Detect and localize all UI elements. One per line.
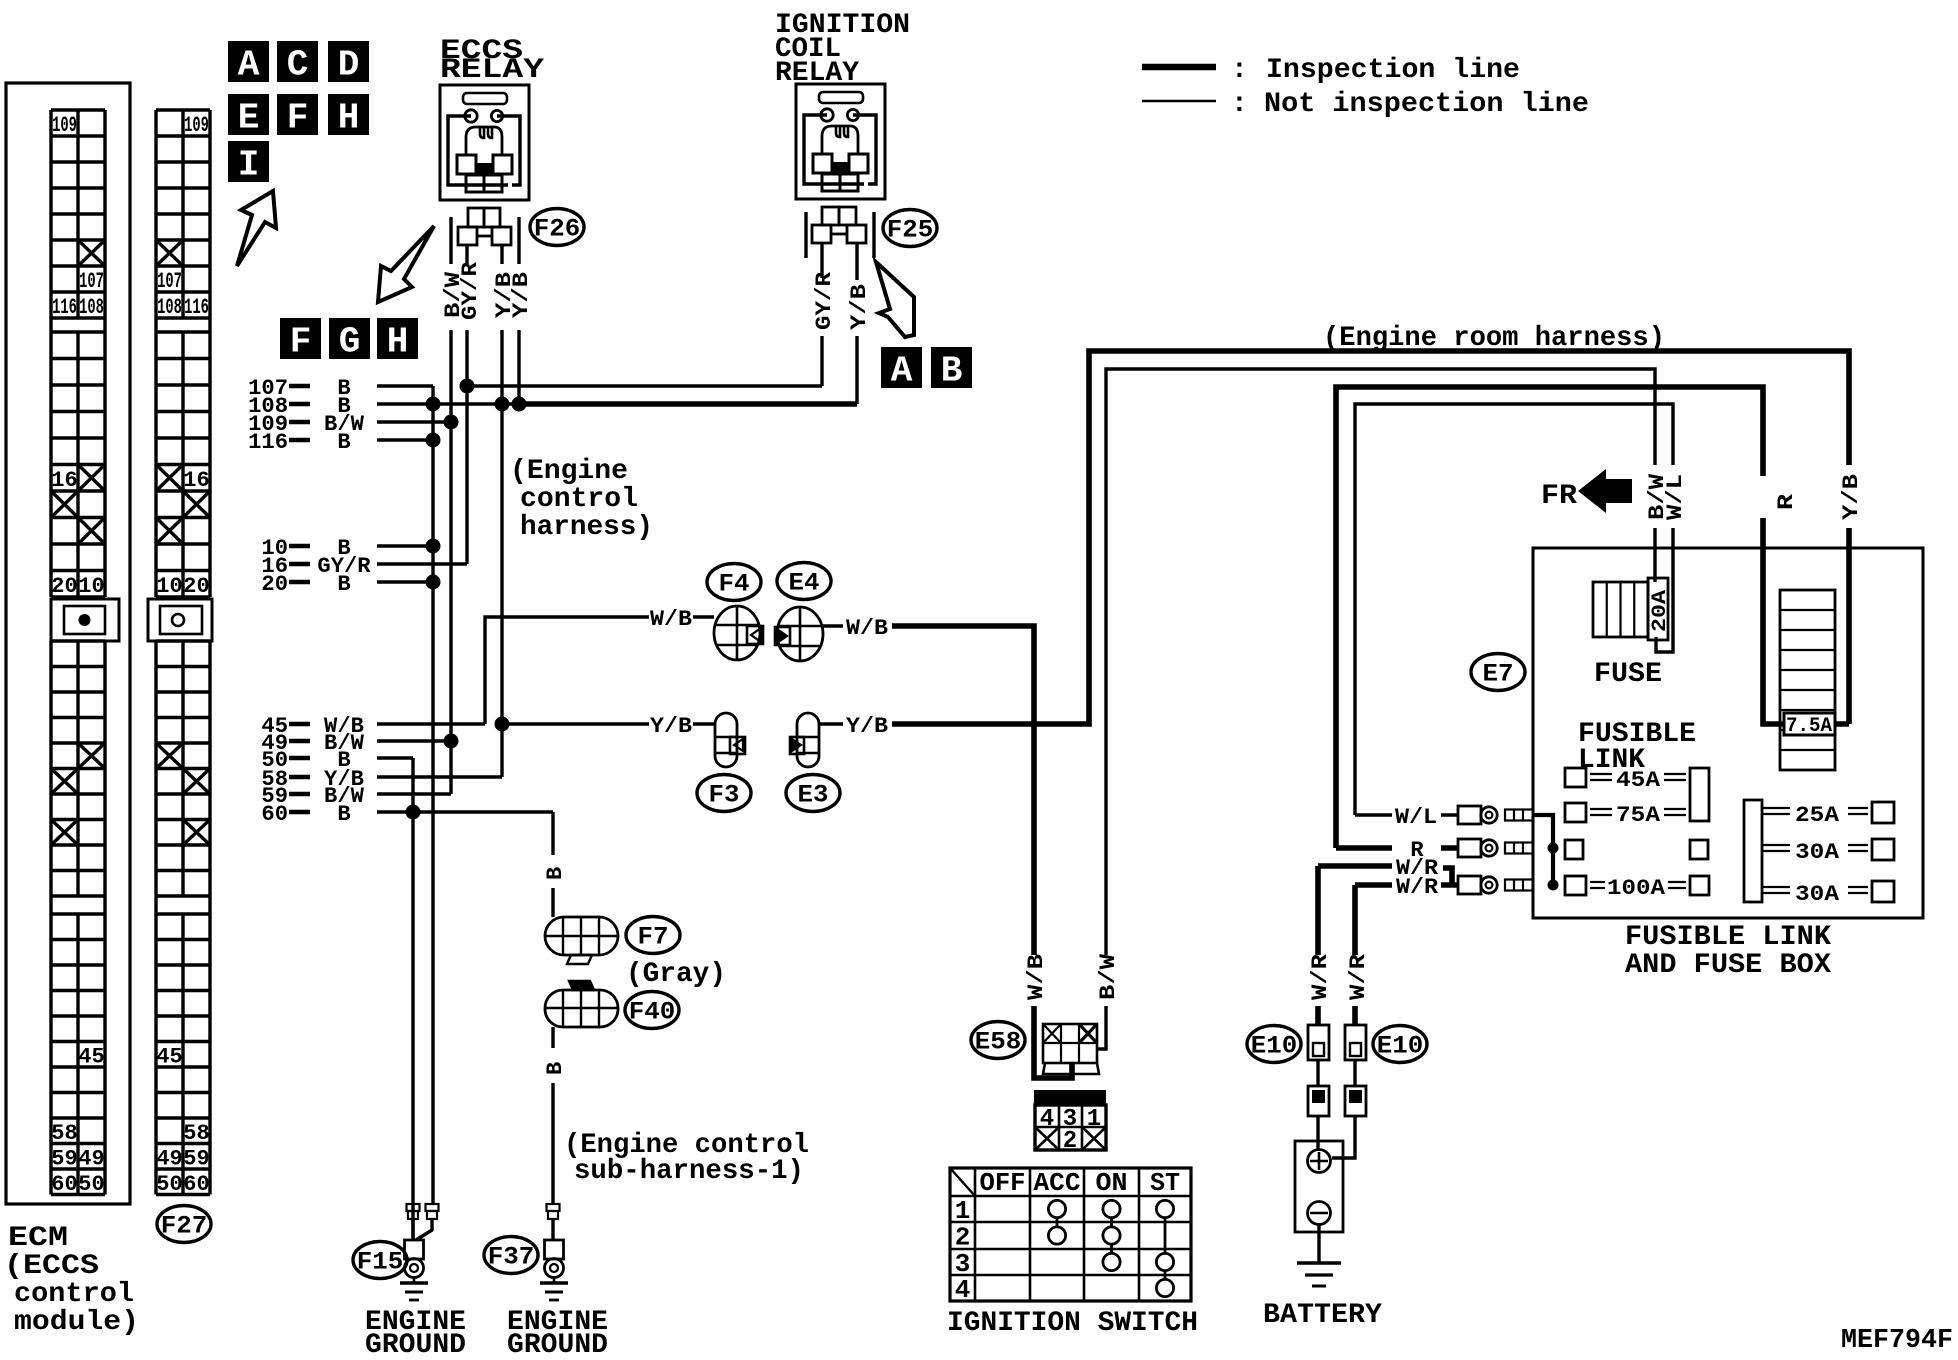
battery body: [1295, 1141, 1343, 1232]
svg-text:sub-harness-1): sub-harness-1): [574, 1156, 804, 1187]
svg-text:E10: E10: [1251, 1032, 1298, 1061]
svg-text:F3: F3: [709, 781, 740, 810]
svg-text:108: 108: [79, 295, 104, 320]
wire label Y/B at ECCS relay pin 3: [492, 272, 517, 318]
svg-text:20: 20: [261, 572, 288, 597]
svg-text:60: 60: [183, 1172, 209, 1197]
marker box I (top group): [228, 141, 269, 186]
svg-text:W/R: W/R: [1308, 953, 1333, 1000]
fusible link 25A row: [1761, 802, 1894, 828]
wire bus B (x413) from pin 50 down to engine ground F15: [406, 758, 421, 1240]
svg-text:F: F: [290, 322, 312, 363]
svg-text:ACC: ACC: [1034, 1168, 1081, 1198]
wire GY/R from ignition coil relay down to pin 107 row: [820, 268, 823, 386]
svg-text:G: G: [339, 322, 361, 363]
legend inspection line sample: [1142, 64, 1216, 71]
marker box F (middle group): [280, 318, 321, 363]
connector E3 body: [790, 713, 819, 767]
svg-text:E7: E7: [1483, 660, 1514, 689]
ECM right strip keying connector with open circle: [148, 599, 212, 641]
svg-text:control: control: [14, 1279, 134, 1310]
svg-text:I: I: [238, 145, 260, 186]
svg-text:45A: 45A: [1616, 768, 1661, 793]
connector F3 label: [697, 775, 751, 812]
wire Y/B second pin of ECCS relay down to row 108: [512, 330, 527, 412]
svg-text:E: E: [238, 98, 260, 139]
svg-text:30A: 30A: [1795, 840, 1840, 865]
svg-text:50: 50: [78, 1172, 104, 1197]
svg-text:7.5A: 7.5A: [1786, 715, 1832, 738]
svg-text:116: 116: [248, 430, 288, 455]
battery terminal connector left upper: [1308, 1006, 1329, 1060]
svg-text:30A: 30A: [1795, 882, 1840, 907]
engine ground F15 terminal: [400, 1240, 428, 1300]
(Engine control sub-harness-1) label: [564, 1130, 809, 1187]
wire R from label down to 7.5A fuse joint: [1763, 518, 1849, 724]
ignition switch connector face black header: [1034, 1090, 1106, 1105]
svg-text:109: 109: [52, 113, 77, 138]
ignition switch connector face pin grid 431/X2X: [1035, 1105, 1106, 1155]
fuse 7.5A label: [1784, 713, 1835, 738]
svg-text:Inspection line: Inspection line: [1266, 55, 1520, 86]
wire W/B from label down to E58 connector: [1034, 1006, 1072, 1078]
wire B/W bus from ECCS relay to pins 109/49/59: [444, 330, 459, 794]
wire label B/W above 20A fuse: [1645, 473, 1670, 520]
ENGINE GROUND caption right: [507, 1307, 608, 1360]
svg-text:F15: F15: [357, 1248, 404, 1277]
svg-text:49: 49: [156, 1146, 182, 1171]
svg-text:58: 58: [183, 1121, 209, 1146]
FUSIBLE LINK AND FUSE BOX outline: [1533, 548, 1923, 918]
svg-text:A: A: [891, 351, 913, 392]
battery terminal connector right upper: [1345, 1006, 1366, 1060]
svg-text:16: 16: [183, 468, 209, 493]
svg-text::: :: [1231, 55, 1248, 86]
svg-text:GROUND: GROUND: [507, 1330, 608, 1360]
svg-text:16: 16: [51, 468, 77, 493]
wire B from F40 down to engine ground F37: [543, 1027, 568, 1204]
svg-text:1: 1: [955, 1196, 971, 1226]
svg-text:50: 50: [156, 1172, 182, 1197]
connector E58 pin grid: [1043, 1024, 1099, 1074]
svg-text:20: 20: [183, 574, 209, 599]
engine ground F37 wire pin: [547, 1204, 560, 1240]
svg-text:109: 109: [184, 113, 209, 138]
legend Not inspection line text: [1231, 89, 1589, 120]
ECM pin 10 (B) label and wire: [261, 536, 437, 561]
marker box A (ignition coil group): [881, 347, 922, 392]
wire W/L row with ring terminal: [1355, 805, 1553, 885]
ECM pin 58 (Y/B) label and wire: [261, 767, 502, 792]
svg-text:Y/B: Y/B: [509, 272, 534, 318]
wire label W/L next to B/W: [1663, 474, 1688, 520]
svg-text:F7: F7: [638, 923, 669, 952]
wire W/B thick from label to ignition switch riser: [892, 626, 1034, 955]
svg-text:W/L: W/L: [1395, 805, 1437, 830]
ECM pin 50 (B) label and wire: [261, 748, 413, 773]
svg-text:A: A: [238, 45, 260, 86]
svg-text:IGNITION SWITCH: IGNITION SWITCH: [947, 1308, 1198, 1339]
marker box A (top group): [228, 41, 269, 86]
svg-text:ST: ST: [1150, 1168, 1180, 1198]
svg-text:Y/B: Y/B: [650, 714, 692, 739]
svg-text:W/R: W/R: [1396, 875, 1439, 900]
svg-text:RELAY: RELAY: [440, 55, 544, 86]
svg-text:ON: ON: [1096, 1168, 1128, 1198]
marker box D (top group): [328, 41, 369, 86]
connector F26 body below ECCS relay: [451, 208, 519, 264]
svg-text:GROUND: GROUND: [365, 1330, 466, 1360]
ECM left strip keying connector with solid dot: [51, 599, 119, 641]
svg-text:R: R: [1774, 493, 1799, 510]
wire label W/R right battery feed: [1346, 953, 1371, 1000]
svg-text:(Gray): (Gray): [626, 959, 726, 990]
ECM pin 116 (B) label and wire: [248, 430, 437, 455]
FUSIBLE LINK AND FUSE BOX caption: [1625, 922, 1831, 981]
connector F4 label: [707, 564, 761, 601]
wire Y/B thick from label up into engine room harness: [892, 351, 1849, 724]
connector F27 label: [157, 1206, 211, 1243]
connector F25 body below ignition coil relay: [806, 207, 874, 268]
svg-text:W/R: W/R: [1346, 953, 1371, 1000]
svg-text:45: 45: [156, 1044, 182, 1069]
wire label Y/B at ignition coil relay pin 2: [847, 284, 872, 330]
svg-text:2: 2: [955, 1223, 971, 1253]
svg-text:MEF794F: MEF794F: [1841, 1326, 1953, 1356]
svg-text:H: H: [338, 98, 360, 139]
svg-text:59: 59: [51, 1146, 77, 1171]
connector F3 body: [715, 713, 745, 767]
marker box G (middle group): [329, 318, 370, 363]
svg-text:harness): harness): [520, 512, 653, 543]
wire label W/B left of F4: [650, 607, 692, 632]
wire GY/R from ECCS relay to pin 16 and ignition coil relay: [460, 330, 823, 564]
svg-text:FUSIBLE LINK: FUSIBLE LINK: [1625, 922, 1831, 953]
relay IGNITION COIL RELAY: [796, 84, 885, 199]
svg-text:E3: E3: [798, 781, 829, 810]
svg-text:49: 49: [78, 1146, 104, 1171]
connector E7 label: [1471, 654, 1525, 691]
svg-text:D: D: [338, 45, 360, 86]
wire R thick from harness corner to fuse box: [1336, 387, 1763, 848]
svg-text:W/B: W/B: [1024, 954, 1049, 1000]
wire Y/B from E3 to label: [819, 714, 888, 739]
svg-text:60: 60: [51, 1172, 77, 1197]
svg-text:GY/R: GY/R: [812, 271, 837, 330]
svg-text:45: 45: [78, 1044, 104, 1069]
ECM pin 109 (B/W) label and wire: [248, 412, 455, 437]
marker box H (top group): [328, 94, 369, 139]
wire label GY/R at ECCS relay pin 2: [458, 261, 483, 320]
svg-text:Y/B: Y/B: [1839, 474, 1864, 520]
svg-text:F37: F37: [488, 1243, 535, 1272]
svg-text:B: B: [337, 430, 350, 455]
fusible link 100A: [1565, 876, 1709, 901]
connector F40 label: [625, 992, 679, 1029]
svg-text:control: control: [520, 484, 638, 515]
connector F4 body: [714, 606, 763, 660]
svg-text:F26: F26: [534, 215, 581, 244]
svg-text:E10: E10: [1377, 1032, 1424, 1061]
connector F40 body: [545, 981, 618, 1027]
svg-text:H: H: [387, 322, 409, 363]
IGNITION SWITCH caption: [947, 1308, 1198, 1339]
fusible link 45A: [1565, 768, 1686, 793]
svg-text:F: F: [287, 98, 309, 139]
svg-text:C: C: [287, 45, 309, 86]
fusible link 30A row 1: [1761, 839, 1894, 865]
wire Y/B row from bus junction to label: [502, 722, 649, 725]
fusible link 45A/75A connector block: [1690, 768, 1709, 821]
svg-text:4: 4: [1040, 1106, 1054, 1133]
fusible link 25A/30A/30A block: [1744, 800, 1762, 902]
(Engine control harness) label: [510, 456, 653, 543]
engine ground F37 terminal: [540, 1240, 568, 1300]
wire label R above fuse box: [1774, 493, 1799, 510]
svg-text:FR: FR: [1541, 481, 1577, 512]
svg-text:B: B: [543, 1062, 568, 1075]
ECM pin 45 (W/B) label and wire: [261, 714, 485, 739]
fusible link 75A: [1565, 803, 1686, 828]
wire label W/B above ignition switch: [1024, 954, 1049, 1000]
svg-text:116: 116: [184, 295, 209, 320]
FR direction arrow: [1541, 469, 1632, 513]
svg-text:100A: 100A: [1607, 876, 1666, 901]
svg-text:E58: E58: [975, 1028, 1022, 1057]
wire Y/B from label to connector F3: [693, 722, 715, 725]
wire W/L thin from harness to 20A fuse bottom: [1355, 404, 1673, 815]
svg-text:OFF: OFF: [980, 1168, 1026, 1198]
connector F26 label: [530, 209, 584, 246]
svg-text:10: 10: [156, 574, 182, 599]
ECM right connector strip (F27) pin grid: [156, 110, 210, 1197]
svg-text:116: 116: [52, 295, 77, 320]
arrow pointing to A B markers: [876, 262, 914, 337]
svg-text:B: B: [337, 572, 350, 597]
marker box H (middle group): [377, 318, 418, 363]
svg-text:(ECCS: (ECCS: [4, 1251, 99, 1282]
wire W/L from label to 20A fuse bottom hook: [1656, 528, 1673, 652]
ECM pin 59 (B/W) label and wire: [261, 784, 451, 809]
fusible link spare squares: [1565, 840, 1708, 859]
svg-text:B: B: [941, 351, 963, 392]
BATTERY caption: [1263, 1300, 1382, 1331]
(Engine room harness) label: [1323, 323, 1665, 354]
fuse 7.5A body: [1780, 590, 1835, 770]
connector E3 label: [786, 775, 840, 812]
svg-text:F4: F4: [719, 570, 750, 599]
svg-text:4: 4: [955, 1275, 971, 1305]
arrow pointing to ECM connectors: [237, 191, 276, 266]
wire W/R row 1 joining row 2: [1318, 856, 1452, 955]
wire W/R down to battery from row2 corner: [1352, 885, 1358, 955]
svg-text:B: B: [337, 802, 350, 827]
svg-text:FUSE: FUSE: [1594, 659, 1662, 690]
wire W/B from E4 to label: [823, 616, 888, 641]
svg-text:Y/B: Y/B: [847, 284, 872, 330]
relay ECCS RELAY: [440, 85, 529, 200]
wire label Y/B at ECCS relay pin 4: [509, 272, 534, 318]
svg-text:20A: 20A: [1649, 590, 1672, 632]
svg-text:107: 107: [79, 269, 104, 294]
svg-text:F25: F25: [887, 216, 934, 245]
connector E4 body: [775, 607, 823, 661]
svg-text:Not inspection line: Not inspection line: [1264, 89, 1589, 120]
svg-text:B/W: B/W: [1096, 953, 1121, 1000]
svg-text:B: B: [543, 867, 568, 880]
fuse 20A body: [1593, 578, 1672, 640]
ECM label text: [4, 1223, 139, 1338]
svg-text:module): module): [14, 1307, 139, 1338]
connector F7 label: [626, 917, 680, 954]
legend Inspection line text: [1231, 55, 1520, 86]
FUSE label: [1594, 659, 1662, 690]
connector E4 label: [777, 563, 831, 600]
svg-text:F27: F27: [161, 1212, 208, 1241]
wire Y/B from label down to 7.5A fuse: [1846, 528, 1852, 724]
svg-text:BATTERY: BATTERY: [1263, 1300, 1382, 1331]
svg-text:20: 20: [51, 574, 77, 599]
wire label B/W at ECCS relay pin 1: [441, 271, 466, 318]
svg-text:2: 2: [1063, 1128, 1077, 1155]
wire B from pin 60 down sub-harness: [543, 812, 568, 917]
svg-text:25A: 25A: [1795, 803, 1840, 828]
ECM pin 20 (B) label and wire: [261, 572, 437, 597]
svg-text:W/B: W/B: [846, 616, 888, 641]
svg-text:10: 10: [78, 574, 104, 599]
connector F7 body (gray): [545, 917, 618, 964]
junction pins 108/116/10/20 on B bus: [426, 397, 441, 590]
svg-text:W/B: W/B: [650, 607, 692, 632]
svg-text:75A: 75A: [1616, 803, 1661, 828]
FUSIBLE LINK label: [1578, 719, 1696, 776]
marker box C (top group): [277, 41, 318, 86]
svg-text::: :: [1231, 89, 1248, 120]
ECM pin 16 (GY/R) label and wire: [261, 554, 467, 579]
svg-text:Y/B: Y/B: [846, 714, 888, 739]
ECM pin 108 (B) label and wire: [248, 394, 857, 419]
ground below battery: [1297, 1224, 1341, 1286]
connector F25 label: [883, 210, 937, 247]
battery terminal connector right lower: [1332, 1060, 1366, 1158]
connector E10 label right: [1373, 1026, 1427, 1063]
marker box F (top group): [277, 94, 318, 139]
svg-text:AND FUSE BOX: AND FUSE BOX: [1625, 950, 1831, 981]
ECCS RELAY title: [440, 36, 544, 86]
svg-text:58: 58: [51, 1121, 77, 1146]
IGNITION SWITCH table: [950, 1168, 1191, 1305]
engine ground F15 wires and pins: [407, 1204, 439, 1240]
wire label GY/R at ignition coil relay pin 1: [812, 271, 837, 330]
ECM pin 60 (B) label and wire: [261, 802, 553, 827]
ECM pin 107 (B) label and wire: [248, 376, 433, 401]
battery terminal connector left lower: [1308, 1060, 1329, 1150]
wire W/B from label to connector F4: [693, 615, 714, 618]
wire label Y/B left of F3: [650, 714, 692, 739]
wire B/W thin from E58 up and over to 20A fuse: [1096, 369, 1655, 1049]
wire Y/B from ECCS relay pin to pins 58/45 row: [495, 330, 510, 777]
wire label W/R left battery feed: [1308, 953, 1333, 1000]
connector F37 label: [484, 1237, 538, 1274]
ENGINE GROUND caption left: [365, 1307, 466, 1360]
svg-text:1: 1: [1087, 1106, 1101, 1133]
IGNITION COIL RELAY title: [775, 10, 910, 89]
svg-text:(Engine: (Engine: [510, 456, 628, 487]
wire Y/B from ignition coil relay down to pin 108 row: [855, 268, 858, 404]
wire bus B (x433) from pin 107 down to engine ground F15: [431, 386, 434, 1204]
ECM left connector strip F-side pin grid: [51, 110, 105, 1197]
fusible link 30A row 2: [1761, 881, 1894, 907]
wire W/R row 2 with ring terminal: [1355, 875, 1559, 900]
svg-text:59: 59: [183, 1146, 209, 1171]
svg-text:GY/R: GY/R: [458, 261, 483, 320]
(Gray) note: [626, 959, 726, 990]
svg-text:108: 108: [157, 295, 182, 320]
connector F15 label: [353, 1242, 407, 1279]
connector E10 label left: [1247, 1026, 1301, 1063]
wire R row with ring terminal: [1336, 838, 1559, 863]
svg-text:107: 107: [157, 269, 182, 294]
arrow pointing to F G H markers: [378, 226, 434, 302]
ECM pin 49 (B/W) label and wire: [261, 731, 455, 756]
connector E58 label: [971, 1022, 1025, 1059]
marker box E (top group): [228, 94, 269, 139]
svg-text:60: 60: [261, 802, 288, 827]
wire label Y/B right side of fuse box: [1839, 474, 1864, 520]
wire B/W from label to 20A fuse top: [1653, 528, 1656, 582]
diagram code MEF794F: [1841, 1326, 1953, 1356]
svg-text:E4: E4: [789, 569, 820, 598]
svg-text:W/L: W/L: [1663, 474, 1688, 520]
svg-text:F40: F40: [629, 998, 676, 1027]
wire riser pin45 W/B up to F4 row: [485, 617, 649, 724]
ECM (ECCS control module) outer box: [6, 83, 130, 1204]
marker box B (ignition coil group): [931, 347, 972, 392]
svg-text:ECM: ECM: [8, 1223, 68, 1254]
legend not inspection line sample: [1142, 100, 1216, 102]
